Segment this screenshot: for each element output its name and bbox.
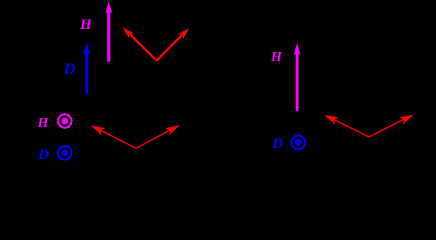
vector H arrow (upper left, magenta, up) — [105, 2, 112, 62]
svg-text:D: D — [37, 147, 49, 163]
D out-of-page symbol (circled dot, blue) — [58, 146, 72, 160]
red ray arrow pair (right) — [323, 111, 416, 137]
D out-of-page symbol (circled dot, blue right) — [291, 135, 305, 149]
svg-text:H: H — [270, 50, 283, 65]
svg-text:H: H — [79, 17, 93, 33]
svg-text:H: H — [37, 116, 50, 131]
vector H arrow (right, magenta, up) — [294, 43, 301, 111]
vector D arrow (upper left, blue, up) — [83, 42, 90, 94]
H out-of-page symbol (circled dot, magenta) — [58, 114, 71, 127]
svg-text:D: D — [63, 61, 76, 78]
red ray arrow pair (lower left) — [89, 122, 182, 149]
red ray arrow pair (upper left wave normals) — [120, 25, 191, 61]
svg-text:D: D — [271, 136, 283, 152]
